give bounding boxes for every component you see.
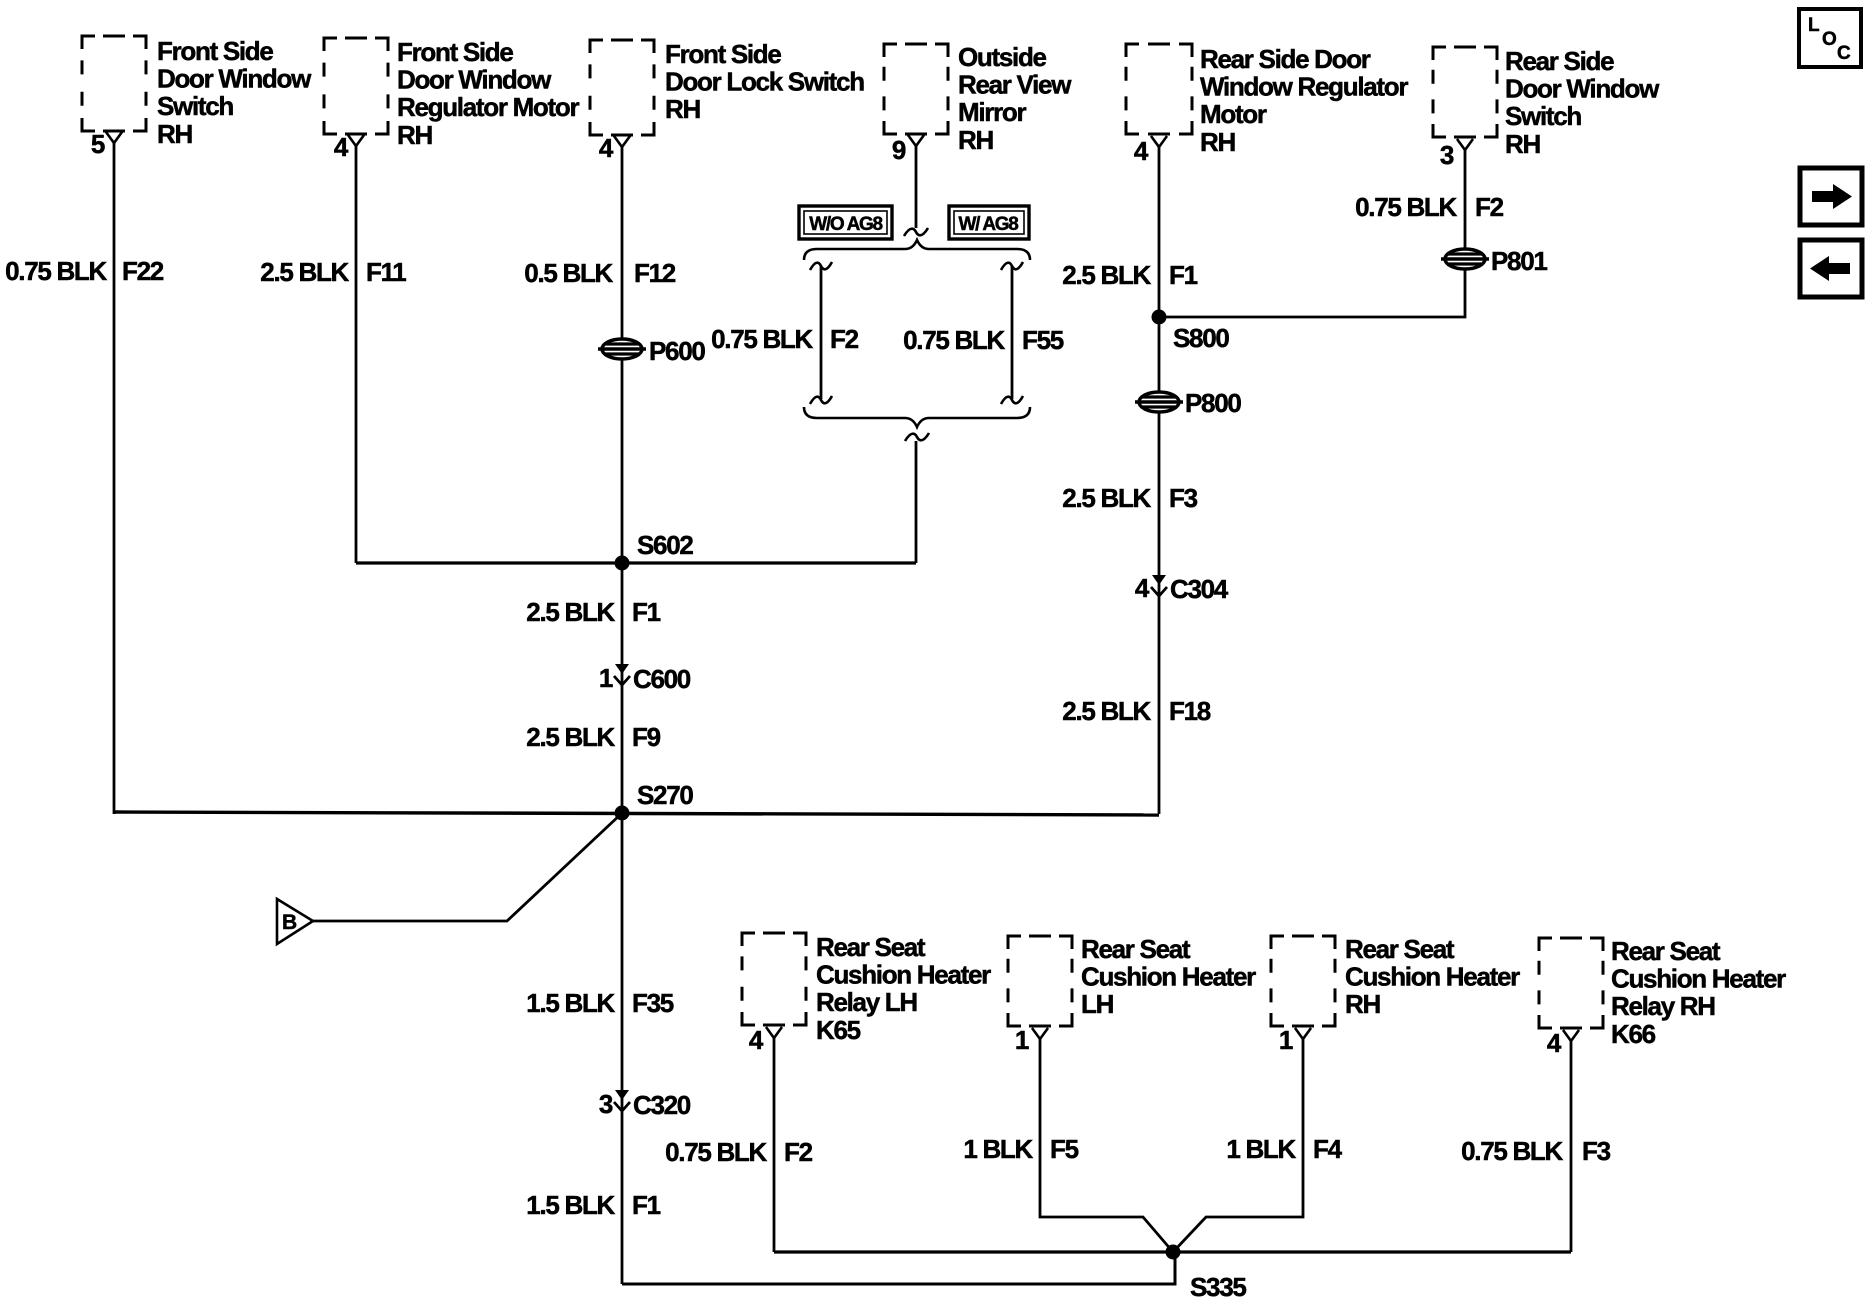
svg-text:2.5 BLK: 2.5 BLK <box>260 257 349 287</box>
component: Front Side Door Window Switch RH (dashed box) <box>82 36 146 131</box>
component: Rear Seat Cushion Heater Relay RH K66 (dashed box) <box>1539 938 1603 1028</box>
svg-text:Outside: Outside <box>958 42 1047 72</box>
svg-text:4: 4 <box>1135 573 1150 603</box>
svg-text:W/O AG8: W/O AG8 <box>809 214 882 235</box>
svg-text:4: 4 <box>334 132 349 162</box>
svg-text:F2: F2 <box>784 1137 813 1167</box>
svg-text:Cushion Heater: Cushion Heater <box>816 960 991 990</box>
svg-text:S270: S270 <box>637 780 693 810</box>
svg-text:F35: F35 <box>632 988 674 1018</box>
svg-text:S800: S800 <box>1173 323 1229 353</box>
svg-text:S602: S602 <box>637 530 693 560</box>
svg-text:0.75 BLK: 0.75 BLK <box>1355 192 1457 222</box>
svg-text:2.5 BLK: 2.5 BLK <box>1062 696 1151 726</box>
svg-text:Door Lock Switch: Door Lock Switch <box>665 67 864 97</box>
svg-text:C304: C304 <box>1170 574 1229 604</box>
wire from mirror pin 9 to option split (break) <box>915 146 918 228</box>
svg-text:F4: F4 <box>1313 1134 1343 1164</box>
svg-text:Rear Seat: Rear Seat <box>1611 936 1721 966</box>
svg-text:S335: S335 <box>1190 1272 1246 1302</box>
svg-text:Rear View: Rear View <box>958 70 1072 100</box>
svg-text:F3: F3 <box>1169 483 1198 513</box>
svg-text:K66: K66 <box>1611 1019 1656 1049</box>
option tag box: W/ AG8 <box>949 206 1029 239</box>
component: Rear Seat Cushion Heater Relay LH K65 (dashed box) <box>742 933 806 1025</box>
svg-text:Rear Seat: Rear Seat <box>1345 934 1455 964</box>
off-page reference triangle B <box>277 899 313 944</box>
svg-text:1 BLK: 1 BLK <box>1226 1134 1296 1164</box>
svg-text:Window Regulator: Window Regulator <box>1200 72 1408 102</box>
svg-text:2.5 BLK: 2.5 BLK <box>526 597 615 627</box>
svg-text:1.5 BLK: 1.5 BLK <box>526 1190 615 1220</box>
svg-text:C320: C320 <box>633 1090 691 1120</box>
svg-text:F22: F22 <box>122 256 164 286</box>
svg-text:2.5 BLK: 2.5 BLK <box>526 722 615 752</box>
svg-text:Door Window: Door Window <box>1505 74 1660 104</box>
grommet P600 <box>598 339 646 359</box>
wire break squiggle below option split <box>905 433 929 441</box>
svg-text:1: 1 <box>1015 1025 1029 1055</box>
splice S800 <box>1152 310 1167 325</box>
wire F5 from heater LH down to S335 <box>1040 1039 1173 1252</box>
svg-text:Relay LH: Relay LH <box>816 987 917 1017</box>
wire from C320 to S335 (lower run) <box>622 1252 1175 1284</box>
svg-text:C600: C600 <box>633 664 691 694</box>
component: Rear Side Door Window Regulator Motor RH (dashed box) <box>1126 44 1192 134</box>
svg-text:F55: F55 <box>1022 325 1064 355</box>
wire F1 from S602 down to C600 <box>621 563 624 814</box>
svg-text:4: 4 <box>599 133 614 163</box>
component: Front Side Door Window Regulator Motor RH (dashed box) <box>324 38 388 134</box>
grommet P800 <box>1135 392 1183 412</box>
splice S335 <box>1166 1245 1181 1260</box>
splice S270 <box>615 806 630 821</box>
component: Front Side Door Lock Switch RH (dashed box) <box>590 40 654 135</box>
svg-text:F1: F1 <box>632 597 661 627</box>
svg-text:RH: RH <box>958 125 993 155</box>
svg-text:0.75 BLK: 0.75 BLK <box>903 325 1005 355</box>
svg-text:1: 1 <box>599 663 613 693</box>
svg-text:1.5 BLK: 1.5 BLK <box>526 988 615 1018</box>
svg-text:F12: F12 <box>634 258 676 288</box>
svg-text:Rear Side Door: Rear Side Door <box>1200 44 1371 74</box>
component: Rear Side Door Window Switch RH (dashed box) <box>1433 47 1497 137</box>
svg-text:F2: F2 <box>830 324 859 354</box>
svg-text:RH: RH <box>1345 989 1380 1019</box>
wire break squiggle above option split <box>904 228 928 236</box>
component: Rear Seat Cushion Heater RH (dashed box) <box>1271 936 1335 1026</box>
wire F35 from S270 down through C320 <box>621 813 624 1284</box>
wire F4 from heater RH down to S335 <box>1173 1039 1303 1252</box>
wire F3 from K66 pin 4 down to S335 bus <box>1570 1041 1573 1252</box>
svg-text:F1: F1 <box>1169 260 1198 290</box>
svg-text:W/ AG8: W/ AG8 <box>958 214 1018 235</box>
upper brace of option split <box>804 240 1030 260</box>
svg-text:K65: K65 <box>816 1015 861 1045</box>
svg-text:Switch: Switch <box>1505 101 1581 131</box>
lower brace of option split <box>804 407 1030 427</box>
svg-text:Front Side: Front Side <box>157 36 273 66</box>
svg-text:Switch: Switch <box>157 91 233 121</box>
svg-text:Door Window: Door Window <box>157 64 312 94</box>
svg-text:Rear Seat: Rear Seat <box>816 932 926 962</box>
svg-text:F9: F9 <box>632 722 661 752</box>
svg-text:1: 1 <box>1279 1025 1293 1055</box>
svg-text:Rear Seat: Rear Seat <box>1081 934 1191 964</box>
svg-text:Rear Side: Rear Side <box>1505 46 1614 76</box>
svg-text:3: 3 <box>599 1089 613 1119</box>
svg-text:0.5 BLK: 0.5 BLK <box>524 258 613 288</box>
svg-text:P600: P600 <box>649 336 705 366</box>
svg-text:C: C <box>1837 43 1851 64</box>
svg-text:0.75 BLK: 0.75 BLK <box>665 1137 767 1167</box>
svg-text:P801: P801 <box>1491 246 1547 276</box>
svg-text:L: L <box>1808 15 1820 36</box>
svg-text:F2: F2 <box>1475 192 1504 222</box>
svg-text:F1: F1 <box>632 1190 661 1220</box>
svg-text:Front Side: Front Side <box>397 37 513 67</box>
svg-text:2.5 BLK: 2.5 BLK <box>1062 483 1151 513</box>
svg-text:B: B <box>282 911 297 934</box>
svg-text:RH: RH <box>1505 129 1540 159</box>
component: Outside Rear View Mirror RH (dashed box) <box>884 44 948 134</box>
svg-text:F18: F18 <box>1169 696 1211 726</box>
LOC legend box <box>1799 9 1861 67</box>
svg-text:P800: P800 <box>1185 388 1241 418</box>
svg-text:LH: LH <box>1081 989 1114 1019</box>
svg-text:0.75 BLK: 0.75 BLK <box>5 256 107 286</box>
wire F22 from pin 5 down to S270 bus <box>113 143 116 814</box>
svg-text:F11: F11 <box>366 257 406 287</box>
svg-text:Cushion Heater: Cushion Heater <box>1611 964 1786 994</box>
svg-text:RH: RH <box>397 120 432 150</box>
svg-text:F5: F5 <box>1050 1134 1079 1164</box>
splice S335 horizontal bus <box>774 1250 1571 1253</box>
svg-text:4: 4 <box>1134 136 1149 166</box>
splice S602 <box>615 556 630 571</box>
svg-text:Mirror: Mirror <box>958 97 1027 127</box>
wire F12 from pin 4 of door lock switch down through P600 to S602 <box>621 147 624 563</box>
svg-text:RH: RH <box>665 94 700 124</box>
svg-text:Front Side: Front Side <box>665 39 781 69</box>
svg-text:3: 3 <box>1440 140 1454 170</box>
wire F1 from rear regulator motor pin 4 down to S800 <box>1158 146 1161 814</box>
svg-text:Cushion Heater: Cushion Heater <box>1081 962 1256 992</box>
svg-text:0.75 BLK: 0.75 BLK <box>1461 1136 1563 1166</box>
svg-text:4: 4 <box>1547 1028 1562 1058</box>
right-arrow navigation box <box>1800 168 1862 225</box>
wire from option split down to S602 bus <box>915 441 918 563</box>
svg-text:2.5 BLK: 2.5 BLK <box>1062 260 1151 290</box>
svg-text:F3: F3 <box>1582 1136 1611 1166</box>
grommet P801 <box>1441 249 1489 269</box>
svg-text:Motor: Motor <box>1200 99 1267 129</box>
option branch bracket left (W/O AG8 wire section) <box>810 262 832 404</box>
wire F11 from pin 4 down to S602 <box>355 146 358 563</box>
svg-text:Regulator Motor: Regulator Motor <box>397 92 579 122</box>
svg-text:1 BLK: 1 BLK <box>963 1134 1033 1164</box>
left-arrow navigation box <box>1800 240 1862 297</box>
svg-text:Relay RH: Relay RH <box>1611 991 1715 1021</box>
svg-text:0.75 BLK: 0.75 BLK <box>711 324 813 354</box>
component: Rear Seat Cushion Heater LH (dashed box) <box>1008 936 1072 1026</box>
splice S270 horizontal bus <box>114 812 1159 815</box>
svg-text:RH: RH <box>157 119 192 149</box>
option tag box: W/O AG8 <box>799 206 892 239</box>
wire from S800 right and up to P801 <box>1159 150 1465 317</box>
svg-text:RH: RH <box>1200 127 1235 157</box>
svg-text:Door Window: Door Window <box>397 65 552 95</box>
option branch bracket right (W/ AG8 wire section) <box>1001 262 1023 404</box>
svg-text:4: 4 <box>749 1025 764 1055</box>
svg-text:Cushion Heater: Cushion Heater <box>1345 962 1520 992</box>
svg-text:5: 5 <box>91 129 105 159</box>
svg-text:O: O <box>1822 29 1836 50</box>
svg-text:9: 9 <box>892 135 906 165</box>
splice S602 horizontal bus <box>356 561 916 564</box>
wire from triangle B to S270 <box>313 814 621 921</box>
wire F2 from K65 pin 4 down to S335 bus <box>773 1038 776 1252</box>
